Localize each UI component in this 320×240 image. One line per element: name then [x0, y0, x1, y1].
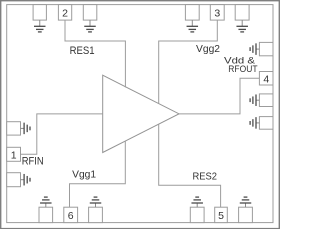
- pad right grounded (bottom): [259, 117, 273, 130]
- pad top grounded (second): [83, 5, 97, 21]
- op-amp U1 (amplifier triangle): [103, 75, 179, 152]
- svg-text:Vgg1: Vgg1: [72, 169, 96, 181]
- pad left grounded (lower): [7, 173, 21, 187]
- pad 6 (box with number): [64, 207, 78, 222]
- pad 4 RFOUT (box with number): [259, 72, 273, 86]
- svg-text:5: 5: [218, 210, 224, 222]
- ground above pad: [240, 197, 252, 207]
- pad bottom grounded (first): [39, 207, 53, 222]
- pad top-left grounded: [33, 5, 46, 21]
- wire RFIN net: pad1 to amp input: [21, 114, 103, 154]
- pad right grounded (top): [259, 42, 273, 55]
- pad 1 RFIN (box with number): [7, 147, 21, 161]
- ground under top-left pad: [34, 20, 46, 32]
- svg-text:1: 1: [11, 149, 17, 161]
- ground above pad: [90, 197, 102, 207]
- pad left grounded (upper): [7, 122, 21, 135]
- rotated ground left of pad: [250, 94, 259, 106]
- ground under pad: [84, 20, 96, 32]
- pad top grounded (third): [185, 5, 199, 21]
- svg-text:4: 4: [263, 73, 269, 85]
- rotated ground right of pad: [21, 174, 31, 186]
- svg-text:RES1: RES1: [70, 45, 95, 57]
- wire Vgg1 net: amp bottom edge to pad6: [70, 141, 126, 207]
- svg-text:3: 3: [214, 8, 220, 20]
- svg-text:RFIN: RFIN: [22, 155, 44, 167]
- rotated ground right of pad: [21, 123, 31, 134]
- pad 5 (box with number): [215, 207, 228, 222]
- ground under pad: [187, 20, 199, 32]
- pad right grounded (middle): [259, 94, 273, 107]
- svg-text:Vgg2: Vgg2: [196, 43, 220, 55]
- rotated ground left of pad: [250, 43, 259, 55]
- wire RES2 net: amp bottom edge to pad5: [159, 124, 221, 207]
- svg-text:RES2: RES2: [193, 170, 218, 182]
- ground under pad: [236, 20, 248, 32]
- pad bottom grounded (fourth): [239, 207, 253, 222]
- rotated ground left of pad: [250, 117, 259, 128]
- chip outline border: [7, 5, 273, 223]
- wire RFOUT net: amp apex to pad4: [179, 78, 259, 114]
- svg-text:6: 6: [68, 210, 74, 222]
- wire Vgg2 net: pad3 to amp top edge: [159, 20, 218, 104]
- ground above pad: [191, 197, 203, 207]
- pad 2 (box with number): [58, 5, 71, 21]
- ground above pad: [40, 197, 52, 207]
- wire RES1 net: pad2 to amp top edge: [65, 20, 125, 87]
- pad top grounded (fourth): [235, 5, 249, 21]
- pad 3 (box with number): [210, 5, 224, 21]
- svg-text:RFOUT: RFOUT: [228, 64, 257, 75]
- svg-text:2: 2: [62, 8, 68, 20]
- pad bottom grounded (third): [190, 207, 204, 222]
- pad bottom grounded (second): [89, 207, 103, 222]
